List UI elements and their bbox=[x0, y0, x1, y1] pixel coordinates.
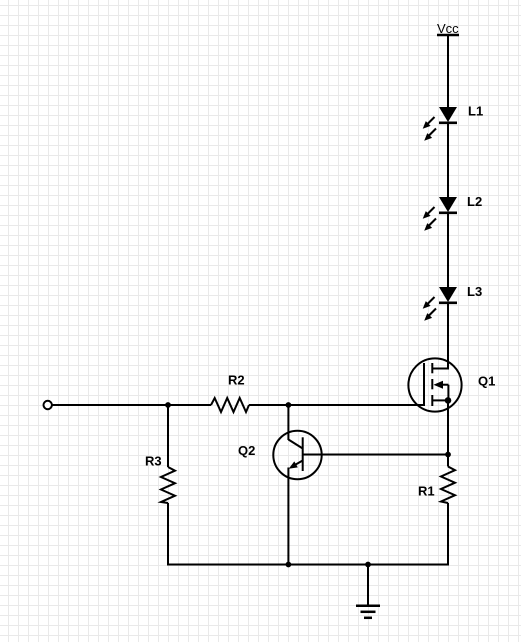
wire bbox=[447, 503, 449, 566]
LED L1 bbox=[423, 107, 457, 141]
resistor R2 bbox=[211, 398, 249, 412]
wire bbox=[249, 404, 424, 406]
LED L2 bbox=[423, 197, 457, 231]
resistor R3 bbox=[161, 467, 175, 503]
wire bbox=[167, 503, 169, 566]
resistor R1 bbox=[441, 467, 455, 504]
LED L3 bbox=[423, 287, 457, 321]
input port bbox=[44, 401, 52, 409]
junction bbox=[286, 562, 292, 568]
wire bbox=[447, 212, 449, 287]
wire bbox=[447, 455, 449, 467]
wire bbox=[287, 468, 289, 566]
svg-text:L2: L2 bbox=[467, 194, 482, 209]
junction bbox=[165, 402, 171, 408]
transistor Q2 bbox=[273, 431, 321, 479]
power Vcc bbox=[437, 21, 459, 36]
wire bbox=[432, 302, 448, 369]
ground bbox=[356, 565, 380, 618]
svg-text:Q2: Q2 bbox=[238, 443, 255, 458]
wire bbox=[167, 405, 169, 467]
svg-text:L1: L1 bbox=[468, 104, 483, 119]
junction bbox=[365, 562, 371, 568]
svg-text:R2: R2 bbox=[228, 373, 245, 388]
wire bbox=[167, 564, 448, 566]
svg-text:Q1: Q1 bbox=[478, 373, 495, 388]
wire bbox=[52, 404, 211, 406]
MOSFET Q1 bbox=[408, 358, 461, 411]
wire bbox=[447, 122, 449, 197]
svg-text:L3: L3 bbox=[467, 284, 482, 299]
junction bbox=[286, 402, 292, 408]
wire bbox=[303, 454, 448, 456]
wire bbox=[287, 405, 289, 440]
junction bbox=[445, 452, 451, 458]
wire bbox=[447, 400, 449, 454]
svg-text:R3: R3 bbox=[145, 454, 162, 469]
svg-text:R1: R1 bbox=[418, 483, 435, 498]
wire bbox=[447, 35, 449, 107]
